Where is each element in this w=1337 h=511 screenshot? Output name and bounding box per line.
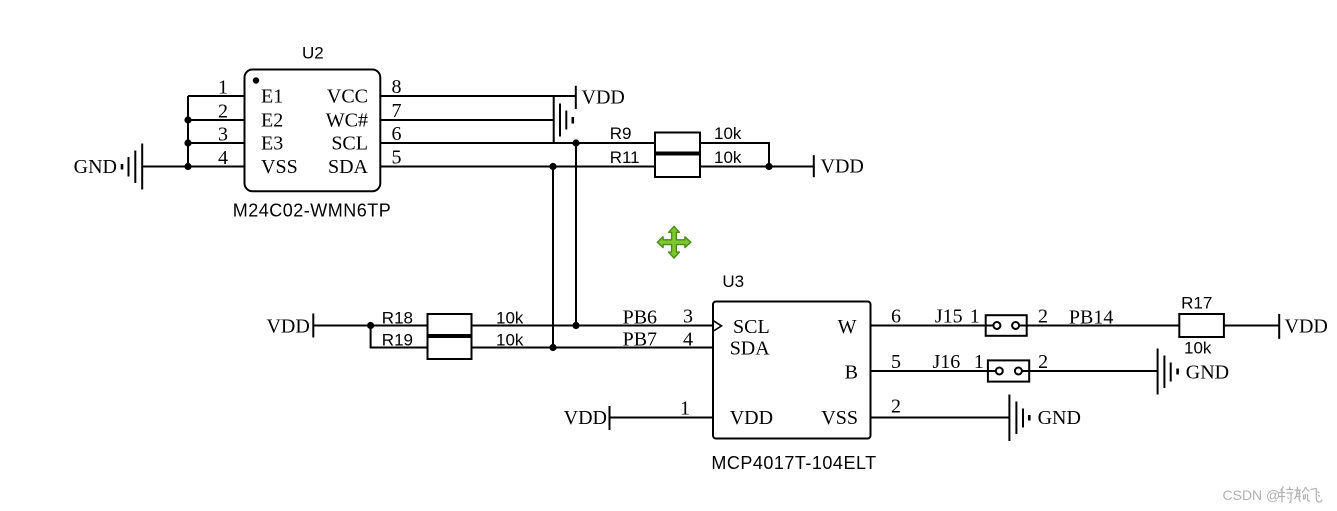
value 10k R19: [496, 331, 524, 350]
label U2 part number: [233, 201, 392, 221]
wire PB7/SDA row: [472, 347, 714, 349]
wire left bus E1-VSS: [187, 96, 189, 167]
svg-text:R18: R18: [382, 309, 413, 328]
svg-text:2: 2: [1038, 306, 1048, 328]
svg-text:2: 2: [1038, 351, 1048, 373]
svg-text:VDD: VDD: [730, 407, 773, 429]
svg-text:PB14: PB14: [1069, 307, 1113, 329]
svg-text:J16: J16: [933, 351, 961, 373]
node SCL junction bottom: [572, 322, 579, 329]
watermark CSDN: [1223, 487, 1281, 503]
wire SDA vertical drop: [552, 167, 554, 348]
svg-text:SDA: SDA: [730, 338, 771, 360]
pin name B: [845, 362, 858, 384]
watermark CJK glyph lun: [1294, 487, 1310, 501]
wire U3 pin1 VDD: [610, 417, 714, 419]
pin name SDA U2: [328, 156, 369, 178]
pin number 1 U2: [218, 77, 228, 99]
value 10k R9: [714, 124, 742, 143]
svg-text:PB6: PB6: [623, 307, 657, 329]
power VDD bar right: [1278, 314, 1280, 339]
wire U2 pin8 VCC: [381, 95, 576, 97]
node junction pin4: [184, 163, 191, 170]
power VDD bar right of R11: [813, 155, 815, 177]
node junction R9/R11: [765, 163, 772, 170]
svg-text:2: 2: [891, 396, 901, 418]
svg-text:10k: 10k: [714, 124, 742, 143]
pin number 3 U2: [218, 124, 228, 146]
clock mark U3 SCL: [714, 321, 722, 331]
pin number 1 J15: [970, 306, 980, 328]
label U3 part number: [711, 453, 876, 473]
svg-text:VCC: VCC: [327, 86, 368, 108]
resistor R9: [655, 133, 700, 153]
svg-text:PB7: PB7: [623, 329, 657, 351]
svg-text:MCP4017T-104ELT: MCP4017T-104ELT: [711, 453, 876, 473]
pin name E1: [261, 86, 283, 108]
pin number 2 U2: [218, 101, 228, 123]
svg-text:CSDN @: CSDN @: [1223, 487, 1281, 503]
wire J16 pin2 to GND: [1022, 370, 1158, 372]
ground symbol left: [122, 144, 142, 190]
svg-text:3: 3: [683, 306, 693, 328]
pin number 2 J15: [1038, 306, 1048, 328]
wire U3 pin2 VSS: [871, 417, 1010, 419]
label GND J16: [1186, 362, 1229, 384]
pin number 6 U2: [392, 123, 402, 145]
svg-text:5: 5: [392, 147, 402, 169]
resistor R17: [1179, 314, 1224, 337]
svg-text:4: 4: [683, 329, 693, 351]
svg-text:E3: E3: [261, 133, 283, 155]
svg-text:R9: R9: [610, 124, 632, 143]
node SDA junction bottom: [549, 344, 556, 351]
svg-text:8: 8: [392, 76, 402, 98]
ground symbol J16: [1158, 349, 1178, 395]
svg-text:1: 1: [680, 398, 690, 420]
pin number 2 J16: [1038, 351, 1048, 373]
svg-text:VSS: VSS: [261, 156, 298, 178]
value 10k R18: [496, 309, 524, 328]
label R19: [382, 331, 413, 350]
pin name SCL U3: [733, 316, 770, 338]
pin name E3: [261, 133, 283, 155]
watermark CJK glyph te: [1279, 487, 1294, 503]
label R17: [1181, 294, 1212, 313]
svg-text:U3: U3: [722, 272, 744, 291]
label R9: [610, 124, 632, 143]
IC U2 body: [245, 70, 381, 192]
wire VDD to R18: [313, 325, 427, 327]
pin number 5 U2: [392, 147, 402, 169]
move cursor icon: [657, 226, 691, 258]
wire U2 pin6 SCL: [381, 142, 656, 144]
pin number 5 U3: [891, 351, 901, 373]
svg-text:SCL: SCL: [733, 316, 770, 338]
pin name E2: [261, 110, 283, 132]
jumper J16: [988, 360, 1029, 381]
label VDD lower-left: [266, 316, 309, 338]
label R18: [382, 309, 413, 328]
svg-text:VDD: VDD: [266, 316, 309, 338]
pin number 4 U2: [218, 147, 228, 169]
svg-text:J15: J15: [935, 306, 963, 328]
pin name W: [838, 316, 857, 338]
pin number 6 U3: [891, 306, 901, 328]
node junction pin2: [184, 116, 191, 123]
svg-text:10k: 10k: [1184, 339, 1212, 358]
wire U2 pin5 SDA: [381, 166, 656, 168]
label U3 refdes: [722, 272, 744, 291]
pin name VSS U2: [261, 156, 298, 178]
value 10k R11: [714, 148, 742, 167]
label U2 refdes: [302, 44, 324, 63]
svg-text:GND: GND: [1186, 362, 1229, 384]
resistor R18: [428, 314, 472, 335]
svg-text:1: 1: [218, 77, 228, 99]
label VDD right of R11: [821, 156, 864, 178]
svg-text:5: 5: [891, 351, 901, 373]
svg-text:W: W: [838, 316, 857, 338]
wire U2 pin3: [188, 142, 245, 144]
wire SCL vertical drop: [575, 143, 577, 326]
svg-text:7: 7: [392, 100, 402, 122]
svg-text:1: 1: [970, 306, 980, 328]
pin name SCL U2: [331, 133, 368, 155]
label J15: [935, 306, 963, 328]
value 10k R17: [1184, 339, 1212, 358]
power VDD top bar: [575, 86, 577, 109]
wire J15 pin2 to R17: [1019, 325, 1179, 327]
svg-text:GND: GND: [74, 156, 117, 178]
pin number 2 U3: [891, 396, 901, 418]
jumper J15: [986, 315, 1027, 336]
label VDD top: [582, 87, 625, 109]
label VDD far right: [1285, 316, 1328, 338]
pin name VCC: [327, 86, 368, 108]
IC U3 body: [713, 302, 871, 439]
node SCL junction top: [572, 139, 579, 146]
svg-text:6: 6: [392, 123, 402, 145]
net label PB14: [1069, 307, 1113, 329]
svg-text:3: 3: [218, 124, 228, 146]
svg-text:R17: R17: [1181, 294, 1212, 313]
resistor R11: [655, 155, 700, 178]
pin name VSS U3: [821, 407, 858, 429]
label R11: [610, 148, 640, 167]
label J16: [933, 351, 961, 373]
label GND VSS: [1038, 407, 1081, 429]
wire R17 to VDD: [1224, 325, 1279, 327]
svg-text:M24C02-WMN6TP: M24C02-WMN6TP: [233, 201, 392, 221]
node junction VDD/R18/R19: [367, 322, 374, 329]
svg-text:GND: GND: [1038, 407, 1081, 429]
wire U2 pin2: [188, 119, 245, 121]
node SDA junction top: [549, 163, 556, 170]
label VDD at U3 pin1: [564, 407, 607, 429]
svg-text:R11: R11: [610, 148, 640, 167]
svg-text:10k: 10k: [496, 331, 524, 350]
svg-text:B: B: [845, 362, 858, 384]
power VDD bar U3 pin1: [609, 406, 611, 430]
svg-text:1: 1: [974, 351, 984, 373]
power VDD bar lower-left: [312, 314, 314, 338]
wire U2 pin1: [188, 95, 245, 97]
U2 pin-1 dot: [253, 77, 259, 83]
resistor R19: [428, 337, 472, 359]
svg-text:WC#: WC#: [326, 110, 368, 132]
pin name WC#: [326, 110, 368, 132]
net label PB6: [623, 307, 657, 329]
svg-text:VDD: VDD: [1285, 316, 1328, 338]
pin number 8 U2: [392, 76, 402, 98]
svg-text:6: 6: [891, 306, 901, 328]
svg-text:SCL: SCL: [331, 133, 368, 155]
node junction pin3: [184, 139, 191, 146]
svg-text:10k: 10k: [714, 148, 742, 167]
svg-text:VDD: VDD: [582, 87, 625, 109]
pin number 7 U2: [392, 100, 402, 122]
pin number 1 J16: [974, 351, 984, 373]
wire R11 right to VDD: [700, 166, 814, 168]
wire U3 pin6 W: [871, 325, 994, 327]
pin number 3 U3: [683, 306, 693, 328]
wire VDD branch down to R19: [371, 326, 428, 348]
wire U2 pin4 / GND net: [142, 166, 245, 168]
pin number 4 U3: [683, 329, 693, 351]
svg-text:2: 2: [218, 101, 228, 123]
wire U3 pin5 B: [871, 370, 996, 372]
svg-text:R19: R19: [382, 331, 413, 350]
svg-text:VDD: VDD: [821, 156, 864, 178]
svg-text:E2: E2: [261, 110, 283, 132]
pin name SDA U3: [730, 338, 771, 360]
ground symbol VSS: [1009, 395, 1029, 442]
net label PB7: [623, 329, 657, 351]
wire U2 pin7 WC#: [381, 119, 554, 121]
label GND left: [74, 156, 117, 178]
svg-text:E1: E1: [261, 86, 283, 108]
pin name VDD U3: [730, 407, 773, 429]
svg-text:4: 4: [218, 147, 228, 169]
svg-text:VDD: VDD: [564, 407, 607, 429]
svg-text:SDA: SDA: [328, 156, 369, 178]
ground symbol WC#: [554, 97, 573, 144]
svg-text:VSS: VSS: [821, 407, 858, 429]
svg-text:10k: 10k: [496, 309, 524, 328]
watermark CJK glyph fei: [1311, 488, 1323, 502]
wire R9 right: [700, 143, 769, 167]
wire PB6/SCL row: [472, 325, 714, 327]
pin number 1 U3: [680, 398, 690, 420]
svg-text:U2: U2: [302, 44, 324, 63]
